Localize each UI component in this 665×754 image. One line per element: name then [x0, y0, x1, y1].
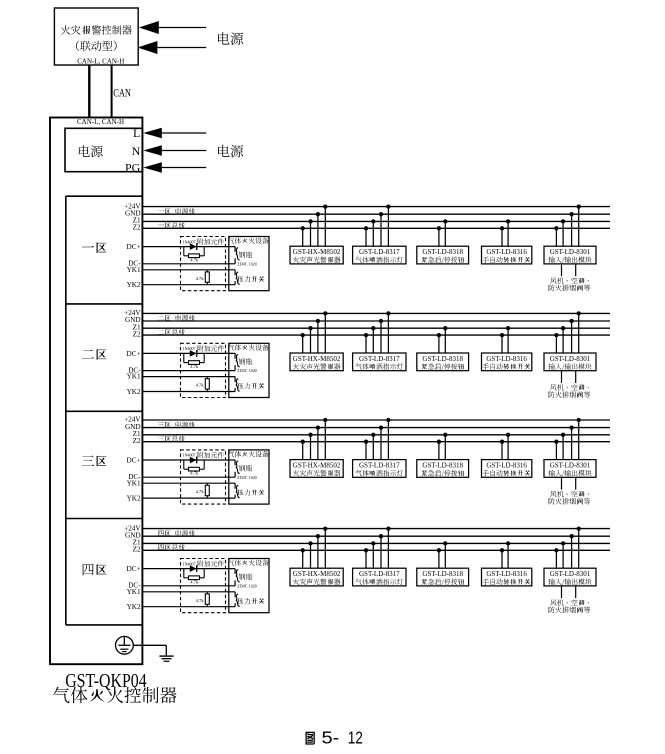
junction	[316, 425, 320, 429]
junction	[500, 440, 504, 444]
mains arrow L	[143, 128, 206, 138]
wire module drop x=325 zone 4	[324, 529, 326, 569]
label 防火排烟阀等	[548, 498, 590, 505]
wire module drop x=439 zone 2	[438, 335, 440, 353]
zone label 二区	[82, 349, 106, 359]
wire earth	[133, 645, 166, 656]
wire module drop x=373 zone 2	[372, 328, 374, 353]
wire module drop x=318 zone 3	[317, 428, 319, 460]
cabinet GST-QKP04 outer box	[50, 118, 142, 665]
diode 1N4007 zone 4	[190, 565, 197, 572]
zone label 一区	[82, 243, 106, 253]
junction	[301, 440, 305, 444]
svg-text:GST-HX-M8502: GST-HX-M8502	[293, 355, 341, 363]
junction	[301, 548, 305, 552]
fire alarm controller box (火灾报警控制器 联动型)	[54, 8, 138, 65]
wire module drop x=381 zone 1	[380, 214, 382, 246]
resistor 4.7k across YK1/YK2 zone 4	[205, 592, 209, 607]
wire DC- jog to cylinder zone 1	[234, 258, 236, 263]
wire module drop x=556 zone 2	[555, 335, 557, 353]
wire GND bus zone 2	[142, 320, 610, 322]
svg-text:4.7k: 4.7k	[190, 471, 199, 476]
wire module drop x=381 zone 2	[380, 321, 382, 353]
module GST-LD-8316 zone 2	[482, 353, 532, 371]
wire YK1 zone 3	[142, 482, 235, 484]
label 气体灭火设备	[228, 344, 269, 350]
label 压力开关 (pressure switch)	[238, 598, 265, 604]
wire module drop x=579 zone 2	[578, 313, 580, 353]
protective earth symbol (circle)	[116, 636, 134, 654]
wire Z2 bus zone 4	[142, 549, 610, 551]
svg-text:5-: 5-	[322, 727, 340, 747]
wire Z2 bus zone 1	[142, 227, 610, 229]
svg-text:GST-LD-8317: GST-LD-8317	[359, 248, 400, 256]
svg-text:GST-LD-8317: GST-LD-8317	[359, 570, 400, 578]
label 风机、空调、	[550, 277, 589, 283]
junction	[561, 219, 565, 223]
svg-text:N: N	[132, 144, 141, 158]
wire Z2 bus zone 3	[142, 441, 610, 443]
junction	[371, 433, 375, 437]
wire module drop x=445 zone 4	[444, 543, 446, 568]
brace pressure switch	[236, 594, 240, 606]
wire DC- zone 4	[142, 585, 235, 587]
junction	[569, 425, 573, 429]
brace pressure switch	[236, 379, 240, 391]
gas extinguishing equipment box 气体灭火设备 zone 2	[229, 343, 269, 397]
wire module drop x=303 zone 2	[302, 335, 304, 353]
junction	[554, 548, 558, 552]
additional components box 附加元件 zone 3	[181, 450, 226, 504]
resistor 4.7k across YK1/YK2 zone 2	[205, 377, 209, 392]
svg-text:GST-LD-8301: GST-LD-8301	[550, 570, 591, 578]
junction	[506, 541, 510, 545]
wire module drop x=572 zone 2	[571, 321, 573, 353]
wire module drop x=502 zone 4	[501, 550, 503, 568]
label 三区电源线	[158, 421, 195, 427]
junction	[323, 418, 327, 422]
label 风机、空调、	[550, 599, 589, 605]
junction	[301, 333, 305, 337]
resistor 4.7k parallel with diode zone 2	[184, 353, 204, 364]
junction	[554, 333, 558, 337]
wire module drop x=381 zone 4	[380, 536, 382, 568]
svg-text:1N4007: 1N4007	[183, 346, 196, 351]
wire module drop x=388 zone 2	[387, 313, 389, 353]
wire module drop x=579 zone 4	[578, 529, 580, 569]
resistor 4.7k parallel with diode zone 3	[184, 460, 204, 471]
junction	[443, 433, 447, 437]
wire module drop x=563 zone 3	[562, 435, 564, 460]
svg-text:PG: PG	[125, 161, 141, 175]
module GST-HX-M8502 zone 2	[290, 353, 343, 371]
junction	[386, 418, 390, 422]
svg-text:DC+: DC+	[127, 565, 141, 573]
brace pressure switch	[236, 485, 240, 497]
mains arrow N	[143, 145, 206, 156]
junction	[443, 219, 447, 223]
wire Z1 bus zone 3	[142, 434, 610, 436]
ground	[159, 656, 173, 661]
zone label 三区	[82, 455, 106, 466]
module GST-HX-M8502 zone 1	[290, 246, 343, 264]
wire DC- jog to cylinder zone 3	[234, 472, 236, 477]
module GST-HX-M8502 zone 3	[290, 460, 343, 478]
label 钢瓶 (cylinder)	[239, 358, 253, 364]
svg-text:1N4007: 1N4007	[183, 453, 196, 458]
wire module drop x=310 zone 1	[310, 221, 312, 246]
zone divider line 1	[66, 303, 143, 305]
wire module drop x=445 zone 1	[444, 221, 446, 246]
junction	[371, 541, 375, 545]
junction	[386, 526, 390, 530]
svg-text:GST-LD-8316: GST-LD-8316	[486, 462, 527, 470]
label 四区总线	[158, 544, 185, 550]
junction	[379, 425, 383, 429]
junction	[443, 326, 447, 330]
svg-text:Z2: Z2	[133, 437, 141, 445]
junction	[371, 219, 375, 223]
wire YK1 jog to pressure switch zone 1	[234, 270, 236, 276]
svg-text:GST-LD-8317: GST-LD-8317	[359, 355, 400, 363]
wire DC+ zone 4	[142, 568, 235, 570]
svg-text:GST-LD-8301: GST-LD-8301	[550, 462, 591, 470]
mains arrow PG	[143, 162, 206, 173]
junction	[308, 326, 312, 330]
wire Z1 bus zone 2	[142, 327, 610, 329]
label 防火排烟阀等	[548, 391, 590, 398]
wire YK2 zone 1	[142, 284, 235, 286]
svg-text:Z2: Z2	[133, 224, 141, 232]
junction	[500, 548, 504, 552]
wire module drop x=563 zone 2	[562, 328, 564, 353]
wire YK1 zone 2	[142, 376, 235, 378]
wire +24V bus zone 1	[142, 206, 610, 208]
wire module drop x=563 zone 4	[562, 543, 564, 568]
wire module drop x=366 zone 3	[365, 442, 367, 460]
wire DC+ zone 3	[142, 459, 235, 461]
svg-text:YK2: YK2	[127, 388, 141, 396]
label 二区电源线	[158, 315, 195, 321]
zone divider line 2	[66, 410, 143, 412]
module GST-LD-8318 zone 4	[417, 568, 469, 586]
junction	[364, 226, 368, 230]
wire to controlled loads 2 zone 4	[575, 586, 577, 598]
wire YK2 zone 2	[142, 391, 235, 393]
wire CAN-H vertical	[111, 65, 113, 118]
wire +24V bus zone 2	[142, 312, 610, 314]
diode 1N4007 zone 3	[190, 457, 197, 464]
svg-text:YK1: YK1	[127, 266, 141, 274]
wire module drop x=325 zone 3	[324, 420, 326, 460]
svg-text:ZD4T. 1020: ZD4T. 1020	[237, 583, 256, 588]
junction	[379, 212, 383, 216]
power arrow 2 into controller	[137, 41, 206, 54]
wire Z1 bus zone 1	[142, 220, 610, 222]
module GST-LD-8318 zone 3	[417, 460, 469, 478]
wire DC- zone 1	[142, 263, 235, 265]
wire to controlled loads 1 zone 2	[561, 371, 563, 383]
brace cylinder	[236, 248, 240, 260]
svg-text:YK2: YK2	[127, 281, 141, 289]
wire YK1 jog to pressure switch zone 4	[234, 592, 236, 598]
wire DC- jog to cylinder zone 4	[234, 580, 236, 585]
label 防火排烟阀等	[548, 285, 590, 292]
wire YK1 zone 4	[142, 591, 235, 593]
svg-text:GST-HX-M8502: GST-HX-M8502	[293, 248, 341, 256]
wire module drop x=303 zone 3	[302, 442, 304, 460]
svg-text:Z2: Z2	[133, 546, 141, 554]
svg-text:GST-LD-8301: GST-LD-8301	[550, 355, 591, 363]
wire module drop x=563 zone 1	[562, 221, 564, 246]
svg-text:1N4007: 1N4007	[183, 561, 196, 566]
wire DC+ jog to cylinder zone 3	[234, 460, 236, 465]
module GST-LD-8316 zone 3	[482, 460, 532, 478]
junction	[561, 541, 565, 545]
module GST-LD-8301 zone 2	[544, 353, 596, 371]
junction	[554, 440, 558, 444]
diode 1N4007 zone 1	[190, 243, 197, 250]
wire module drop x=325 zone 2	[324, 313, 326, 353]
svg-text:DC+: DC+	[127, 243, 141, 251]
wire GND bus zone 4	[142, 535, 610, 537]
junction	[437, 548, 441, 552]
junction	[506, 219, 510, 223]
wire module drop x=508 zone 2	[507, 328, 509, 353]
svg-text:CAN-L, CAN-H: CAN-L, CAN-H	[77, 118, 124, 126]
svg-text:4.7k: 4.7k	[190, 579, 199, 584]
junction	[577, 204, 581, 208]
junction	[569, 319, 573, 323]
svg-text:GST-LD-8316: GST-LD-8316	[486, 248, 527, 256]
wire YK1 jog to pressure switch zone 2	[234, 377, 236, 383]
junction	[554, 226, 558, 230]
label 风机、空调、	[550, 384, 589, 390]
wire Z2 bus zone 2	[142, 334, 610, 336]
module GST-LD-8301 zone 3	[544, 460, 596, 478]
wire module drop x=318 zone 4	[317, 536, 319, 568]
wire DC- jog to cylinder zone 2	[234, 365, 236, 370]
wire DC- zone 2	[142, 370, 235, 372]
label 压力开关 (pressure switch)	[238, 383, 265, 389]
module GST-LD-8316 zone 1	[482, 246, 532, 264]
junction	[379, 319, 383, 323]
wire module drop x=439 zone 3	[438, 442, 440, 460]
wire to controlled loads 2 zone 3	[575, 477, 577, 489]
wire module drop x=439 zone 4	[438, 550, 440, 568]
label 附加元件	[198, 561, 224, 567]
wire module drop x=303 zone 1	[302, 228, 304, 246]
junction	[569, 534, 573, 538]
junction	[323, 204, 327, 208]
wire DC+ jog to cylinder zone 2	[234, 353, 236, 358]
wire module drop x=502 zone 3	[501, 442, 503, 460]
svg-text:4.7k: 4.7k	[196, 383, 205, 388]
svg-text:GST-LD-8318: GST-LD-8318	[422, 248, 463, 256]
svg-text:4.7k: 4.7k	[196, 598, 205, 603]
zone divider line 0	[66, 195, 143, 197]
svg-text:YK1: YK1	[127, 588, 141, 596]
wire module drop x=388 zone 4	[387, 529, 389, 569]
wire module drop x=318 zone 1	[317, 214, 319, 246]
wire module drop x=310 zone 4	[310, 543, 312, 568]
label 附加元件	[198, 452, 224, 458]
svg-text:DC+: DC+	[127, 350, 141, 358]
svg-text:YK2: YK2	[127, 603, 141, 611]
gas extinguishing equipment box 气体灭火设备 zone 3	[229, 450, 269, 504]
wire module drop x=556 zone 4	[555, 550, 557, 568]
junction	[561, 433, 565, 437]
additional components box 附加元件 zone 1	[181, 237, 226, 291]
wire module drop x=381 zone 3	[380, 428, 382, 460]
wire +24V bus zone 3	[142, 419, 610, 421]
module GST-LD-8301 zone 1	[544, 246, 596, 264]
wire module drop x=373 zone 4	[372, 543, 374, 568]
svg-text:L: L	[133, 126, 140, 140]
wire module drop x=325 zone 1	[324, 207, 326, 247]
wire module drop x=303 zone 4	[302, 550, 304, 568]
junction	[386, 311, 390, 315]
svg-text:GST-LD-8317: GST-LD-8317	[359, 462, 400, 470]
svg-text:ZD4T. 1020: ZD4T. 1020	[237, 475, 256, 480]
label 气体灭火设备	[228, 451, 269, 457]
module GST-LD-8316 zone 4	[482, 568, 532, 586]
wire DC+ zone 1	[142, 246, 235, 248]
svg-text:ZD4T. 1020: ZD4T. 1020	[237, 261, 256, 266]
wire DC+ jog to cylinder zone 1	[234, 247, 236, 252]
wire module drop x=579 zone 1	[578, 207, 580, 247]
svg-text:GST-HX-M8502: GST-HX-M8502	[293, 570, 341, 578]
wire YK2 jog to pressure switch zone 3	[234, 495, 236, 499]
wire DC- zone 3	[142, 476, 235, 478]
wire module drop x=373 zone 1	[372, 221, 374, 246]
junction	[437, 333, 441, 337]
junction	[364, 333, 368, 337]
junction	[308, 433, 312, 437]
svg-text:CAN: CAN	[113, 85, 131, 99]
junction	[323, 526, 327, 530]
junction	[386, 204, 390, 208]
svg-text:ZD4T. 1020: ZD4T. 1020	[237, 368, 256, 373]
brace pressure switch	[236, 272, 240, 284]
label 压力开关 (pressure switch)	[238, 276, 265, 282]
svg-text:GST-HX-M8502: GST-HX-M8502	[293, 462, 341, 470]
svg-text:4.7k: 4.7k	[190, 364, 199, 369]
junction	[301, 226, 305, 230]
junction	[443, 541, 447, 545]
brace cylinder	[236, 355, 240, 367]
wire YK2 zone 3	[142, 497, 235, 499]
zone divider line 4	[66, 624, 143, 626]
junction	[316, 212, 320, 216]
wire module drop x=508 zone 1	[507, 221, 509, 246]
label 三区总线	[158, 435, 185, 441]
label 四区电源线	[158, 530, 195, 536]
junction	[437, 226, 441, 230]
module GST-LD-8301 zone 4	[544, 568, 596, 586]
wire Z1 bus zone 4	[142, 542, 610, 544]
wire YK2 zone 4	[142, 606, 235, 608]
module GST-LD-8317 zone 1	[353, 246, 406, 264]
brace cylinder	[236, 570, 240, 582]
label 一区电源线	[158, 208, 195, 214]
module GST-LD-8317 zone 3	[353, 460, 406, 478]
module GST-LD-8317 zone 4	[353, 568, 406, 586]
wire module drop x=366 zone 1	[365, 228, 367, 246]
wire GND bus zone 1	[142, 213, 610, 215]
wire module drop x=310 zone 2	[310, 328, 312, 353]
wire module drop x=579 zone 3	[578, 420, 580, 460]
junction	[364, 440, 368, 444]
junction	[379, 534, 383, 538]
wire module drop x=572 zone 4	[571, 536, 573, 568]
svg-text:DC+: DC+	[127, 457, 141, 465]
wire module drop x=445 zone 2	[444, 328, 446, 353]
junction	[569, 212, 573, 216]
module GST-LD-8317 zone 2	[353, 353, 406, 371]
junction	[323, 311, 327, 315]
module GST-LD-8318 zone 1	[417, 246, 469, 264]
wire YK2 jog to pressure switch zone 4	[234, 603, 236, 607]
wire module drop x=366 zone 4	[365, 550, 367, 568]
svg-text:4.7k: 4.7k	[190, 257, 199, 262]
svg-text:Z2: Z2	[133, 330, 141, 338]
svg-text:GST-LD-8316: GST-LD-8316	[486, 570, 527, 578]
resistor 4.7k across YK1/YK2 zone 1	[205, 270, 209, 285]
wire YK2 jog to pressure switch zone 2	[234, 388, 236, 392]
wire module drop x=572 zone 3	[571, 428, 573, 460]
wire to controlled loads 1 zone 3	[561, 477, 563, 489]
wire DC+ jog to cylinder zone 4	[234, 569, 236, 574]
label 压力开关 (pressure switch)	[238, 489, 265, 495]
power arrow 1 into controller	[139, 21, 206, 34]
resistor 4.7k parallel with diode zone 1	[184, 247, 204, 258]
wire module drop x=373 zone 3	[372, 435, 374, 460]
svg-text:GST-LD-8318: GST-LD-8318	[422, 355, 463, 363]
label 一区总线	[158, 222, 185, 228]
wire module drop x=502 zone 2	[501, 335, 503, 353]
wire module drop x=556 zone 1	[555, 228, 557, 246]
wire DC+ zone 2	[142, 352, 235, 354]
zone label 四区	[83, 564, 107, 575]
svg-text:4.7k: 4.7k	[196, 489, 205, 494]
wire module drop x=502 zone 1	[501, 228, 503, 246]
wire GND bus zone 3	[142, 427, 610, 429]
wire module drop x=310 zone 3	[310, 435, 312, 460]
svg-text:GST-LD-8301: GST-LD-8301	[550, 248, 591, 256]
junction	[577, 418, 581, 422]
caption 图 5- 12	[305, 727, 362, 747]
wire to controlled loads 2 zone 2	[575, 371, 577, 383]
wire to controlled loads 1 zone 1	[561, 264, 563, 276]
svg-text:YK1: YK1	[127, 373, 141, 381]
wire module drop x=445 zone 3	[444, 435, 446, 460]
svg-text:12: 12	[348, 727, 363, 747]
additional components box 附加元件 zone 4	[181, 559, 226, 613]
svg-text:GST-LD-8316: GST-LD-8316	[486, 355, 527, 363]
wire module drop x=572 zone 1	[571, 214, 573, 246]
wire module drop x=318 zone 2	[317, 321, 319, 353]
module GST-HX-M8502 zone 4	[290, 568, 343, 586]
junction	[437, 440, 441, 444]
wire YK1 jog to pressure switch zone 3	[234, 483, 236, 489]
junction	[577, 526, 581, 530]
label 附加元件	[198, 345, 224, 351]
svg-text:1N4007: 1N4007	[183, 239, 196, 244]
wire YK2 jog to pressure switch zone 1	[234, 281, 236, 285]
resistor 4.7k parallel with diode zone 4	[184, 569, 204, 580]
label 附加元件	[198, 239, 224, 245]
